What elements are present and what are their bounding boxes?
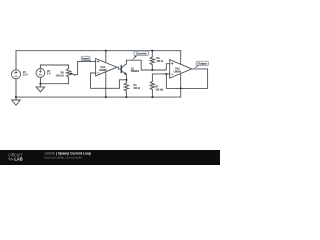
resistor R7 100k [150,74,154,97]
resistor R6 100 ohm [150,51,154,70]
svg-text:100 Ω: 100 Ω [133,87,140,90]
op-amp U2 OA2 triangle [170,60,192,78]
wire Q1 emitter down [125,75,127,83]
wire bottom rail [16,96,181,98]
svg-text:2N3904: 2N3904 [131,70,140,73]
junction dots [15,50,182,98]
node: R6 / top rail [151,50,153,52]
wire OA2 output feedback loop [166,69,207,89]
svg-text:12 V: 12 V [23,74,28,77]
footer bar [0,150,220,165]
ground (V1 / rail) [12,97,21,105]
node: OA1 V- / bottom rail [105,96,107,98]
svg-text:http://circuitlab.com/c6dd4b: http://circuitlab.com/c6dd4b [44,156,82,160]
node: V1/bottom rail [15,96,17,98]
node: OA2 V- / feedback crossing [180,87,182,89]
svg-text:100 kΩ: 100 kΩ [155,88,163,91]
pot wiper arrowhead [70,73,73,76]
svg-text:Input: Input [82,57,89,61]
OA1 V- stub [105,72,107,97]
wire V2 top to pot top [40,64,68,66]
CircuitLab logo [8,152,23,161]
wire pot bottom to V2 bottom [40,83,68,85]
svg-text:Current: Current [136,52,146,56]
OA2 V- stub [180,74,182,98]
op-amp U1 OA1 triangle [96,59,117,76]
voltage source V1 [12,51,21,97]
node: R4 / bottom rail [125,96,127,98]
node: V2 bottom / pot return [39,83,41,85]
wire OA1 -input feedback [91,73,127,88]
node flag Input [81,56,91,62]
component labels [23,57,182,92]
pot wiper arrow [72,74,75,76]
OA1 + mark [97,60,99,62]
node: R6 bottom / current wire [151,69,153,71]
emitter arrowhead [124,72,127,75]
wire R7 top to OA2 -input [152,73,169,75]
wire OA1 output to Q1 base [117,67,121,69]
svg-text:Output: Output [198,61,208,65]
OA2 - mark [171,73,173,75]
node: R7 / bottom rail [151,96,153,98]
svg-text:100 kΩ: 100 kΩ [56,75,64,78]
potentiometer R5 100k [66,65,70,84]
svg-text:2 V: 2 V [47,72,51,75]
svg-text:LM358: LM358 [173,70,181,73]
node: OA2 -input / feedback [165,73,167,75]
OA2 V+ stub (top rail corner) [180,51,182,65]
wire wiper to OA1 + input [74,61,95,74]
node: OA1 V+ / top rail [105,50,107,52]
node flag Output [194,61,209,68]
resistor R4 100 ohm (emitter) [124,83,128,97]
voltage source V2 [36,65,45,87]
svg-text:100 Ω: 100 Ω [156,60,163,63]
OA2 + mark [171,63,173,65]
svg-text:LM358: LM358 [99,69,107,72]
transistor Q1 2N3904 [121,64,126,75]
svg-text:LAB: LAB [14,157,22,162]
OA1 V+ stub [105,51,107,63]
wire Q1 collector to Current node [126,60,169,70]
wire top rail [16,50,181,52]
node flag Current [132,51,149,60]
ground (V2) [36,87,45,92]
OA1 - mark [97,72,99,74]
node: emitter feedback tap [125,79,127,81]
